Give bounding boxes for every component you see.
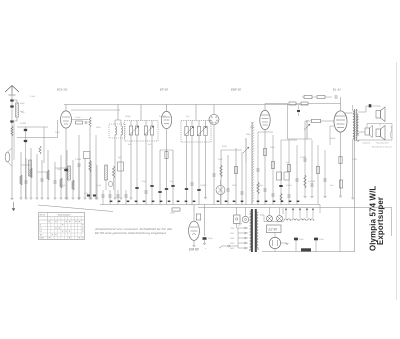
svg-text:0,25MΩ: 0,25MΩ (159, 116, 167, 118)
svg-text:50pF: 50pF (20, 103, 25, 105)
svg-text:0,1µF: 0,1µF (96, 185, 102, 187)
svg-text:50µF: 50µF (208, 238, 213, 240)
svg-text:0,1µF: 0,1µF (30, 96, 36, 98)
svg-text:ECH 81: ECH 81 (57, 88, 68, 92)
svg-text:EF 80 eine getrennte Gleichric: EF 80 eine getrennte Gleichrichtung eing… (95, 231, 167, 235)
svg-text:Abweichend von unserem Schaltb: Abweichend von unserem Schaltbild ist fü… (94, 227, 173, 231)
svg-text:50pF: 50pF (142, 181, 147, 183)
svg-text:EZ 80: EZ 80 (269, 228, 278, 232)
svg-text:2MΩ: 2MΩ (245, 134, 251, 136)
svg-text:200Ω: 200Ω (169, 213, 175, 215)
svg-text:500pF: 500pF (60, 185, 66, 187)
svg-text:Tastenschalter: Tastenschalter (58, 214, 71, 217)
svg-text:50µF: 50µF (299, 239, 304, 241)
svg-text:UKW: UKW (40, 238, 44, 240)
svg-text:300Ω: 300Ω (352, 159, 357, 161)
svg-text:0,1MΩ: 0,1MΩ (75, 159, 81, 161)
svg-text:100pF: 100pF (125, 116, 131, 118)
svg-text:0,5MΩ: 0,5MΩ (20, 123, 26, 125)
svg-text:Top-Boxen: Top-Boxen (362, 143, 371, 145)
svg-text:220V: 220V (229, 243, 235, 245)
svg-text:EF 80: EF 80 (160, 88, 168, 92)
svg-text:50µF: 50µF (270, 147, 275, 149)
svg-text:25kΩ: 25kΩ (56, 169, 62, 171)
svg-text:50µF: 50µF (218, 159, 223, 161)
svg-text:300Ω: 300Ω (222, 146, 227, 148)
svg-text:(Einzelheiten b. Service): (Einzelheiten b. Service) (372, 146, 392, 149)
svg-text:Haupt-Sprecher: Haupt-Sprecher (376, 142, 389, 145)
svg-text:Olympia 574 W/L: Olympia 574 W/L (369, 186, 378, 251)
svg-text:0,5MΩ: 0,5MΩ (200, 185, 206, 187)
svg-text:L: L (40, 221, 41, 223)
svg-text:K2: K2 (40, 231, 42, 233)
svg-text:0,1µF: 0,1µF (75, 117, 81, 119)
svg-text:EBF 80: EBF 80 (231, 88, 241, 92)
svg-text:Wel len: Wel len (40, 215, 46, 217)
svg-text:2MΩ: 2MΩ (249, 127, 255, 129)
svg-text:K1: K1 (40, 228, 42, 230)
svg-text:25kΩ: 25kΩ (257, 185, 263, 187)
svg-text:25kΩ: 25kΩ (95, 127, 101, 129)
svg-text:EM 80: EM 80 (189, 248, 199, 252)
svg-text:0,1MΩ: 0,1MΩ (300, 157, 306, 159)
svg-text:50µF: 50µF (319, 239, 324, 241)
svg-text:10kΩ: 10kΩ (55, 132, 60, 134)
svg-text:EL 41: EL 41 (333, 88, 341, 92)
svg-text:500pF: 500pF (330, 138, 336, 140)
svg-text:240V: 240V (229, 247, 235, 250)
svg-text:0,25MΩ: 0,25MΩ (308, 181, 316, 183)
svg-text:10kΩ: 10kΩ (232, 185, 237, 187)
svg-text:100pF: 100pF (286, 185, 292, 187)
